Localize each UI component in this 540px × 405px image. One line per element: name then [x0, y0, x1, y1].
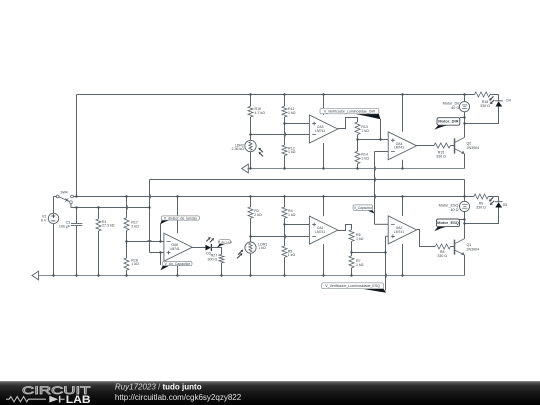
wire capacitor node [71, 207, 150, 209]
wire [351, 253, 353, 256]
resistor R8 330 [435, 244, 454, 258]
wire motor feed line [150, 179, 465, 181]
svg-text:2 kΩ: 2 kΩ [254, 213, 262, 217]
wire divider to OA6 - input [127, 241, 164, 243]
transistor Q1 2N3904 [455, 239, 480, 256]
junction mid bus [176, 195, 178, 197]
junction top bus [401, 93, 403, 95]
junction top ground rail [401, 167, 403, 169]
junction [249, 235, 251, 237]
junction [350, 251, 352, 253]
wire [250, 95, 252, 107]
svg-text:330 Ω: 330 Ω [480, 104, 490, 108]
op-amp OA1 [309, 216, 337, 244]
wire [250, 253, 252, 275]
wire D4 anode return to Q2 collector [465, 107, 499, 124]
junction bottom rail [220, 274, 222, 276]
wire OA2 V- pin [402, 244, 404, 276]
junction [283, 122, 285, 124]
svg-text:6 V: 6 V [41, 218, 47, 222]
svg-text:1 kΩ: 1 kΩ [258, 246, 266, 250]
resistor R3 2k [248, 197, 262, 237]
svg-text:V_do_Capacitor: V_do_Capacitor [164, 262, 190, 266]
net flag Motor_ESQ [434, 219, 459, 231]
junction bottom rail [125, 274, 127, 276]
wire R13/R14 junction to OA4 + input [358, 139, 389, 141]
wire [250, 117, 252, 135]
wire [464, 180, 466, 202]
wire R11 divider to OA3 + input [285, 123, 310, 125]
wire OA2 + input [386, 235, 389, 237]
svg-text:LM741: LM741 [170, 247, 180, 251]
junction [463, 222, 465, 224]
resistor R9 330 [474, 194, 499, 209]
wire V2 to ground rail [53, 224, 55, 276]
svg-text:2N3904: 2N3904 [467, 146, 480, 150]
ground rail bottom circuit [39, 275, 465, 277]
junction bottom rail [176, 274, 178, 276]
wire [464, 212, 466, 224]
capacitor C3 100uF [59, 208, 82, 276]
wire R6/R7 junction to flag stub [352, 252, 386, 254]
junction [463, 122, 465, 124]
wire [221, 263, 223, 276]
wire R9 to D5 cathode [498, 197, 500, 202]
svg-text:Motor_ESQ: Motor_ESQ [437, 220, 459, 225]
svg-text:D5: D5 [503, 203, 508, 207]
wire [284, 124, 286, 146]
wire Q2 collector to motor [464, 112, 466, 138]
junction [463, 116, 465, 118]
wire [126, 242, 128, 259]
wire [357, 164, 359, 169]
wire OA4 output to R15 [417, 145, 434, 147]
wire [351, 241, 353, 252]
svg-text:Motor_DIR: Motor_DIR [438, 119, 458, 124]
svg-text:330 Ω: 330 Ω [436, 154, 446, 158]
wire OA1 V- pin [323, 244, 325, 275]
LED D3 [205, 237, 214, 256]
wire OA6 output [192, 247, 205, 249]
svg-text:V_Capacitor: V_Capacitor [354, 206, 373, 210]
svg-text:LM741: LM741 [315, 230, 325, 234]
wire OA6 V+ pin [177, 197, 179, 234]
junction top bus [322, 93, 324, 95]
junction top ground rail [322, 167, 324, 169]
junction [379, 138, 381, 140]
svg-text:1 kΩ: 1 kΩ [288, 111, 296, 115]
battery V2 6V [41, 213, 59, 223]
wire R9 to D5 [488, 196, 498, 198]
resistor R16 330 [465, 92, 499, 108]
junction capacitor node [75, 206, 77, 208]
wire OA3 V- pin [323, 143, 325, 169]
resistor R1 27.3k [96, 208, 115, 276]
wire LDR2 divider to OA3 - input [251, 134, 310, 136]
wire OA2 + node to ESQ flag [385, 236, 387, 290]
wire Q2 emitter to rail [464, 154, 466, 169]
junction mid bus [401, 195, 403, 197]
resistor R5 1k [282, 225, 295, 276]
junction mid bus [283, 195, 285, 197]
wire [98, 231, 100, 276]
wire R16 to D4 cathode [498, 95, 500, 101]
wire [464, 95, 466, 102]
ground top circuit [242, 164, 249, 173]
wire [450, 246, 454, 248]
junction [159, 240, 161, 242]
wire [357, 140, 359, 152]
wire R4 divider to OA1 + input [285, 224, 310, 226]
wire hop crossings [127, 132, 387, 278]
wire [284, 197, 286, 208]
svg-text:V_divisor_de_tensão: V_divisor_de_tensão [164, 216, 197, 220]
svg-text:V_Verificador_Luminosidade_ESQ: V_Verificador_Luminosidade_ESQ [325, 284, 380, 288]
svg-text:2N3904: 2N3904 [467, 247, 480, 251]
resistor R12 1k [282, 124, 296, 169]
resistor R10 4.7k [248, 95, 265, 135]
svg-text:2 kΩ: 2 kΩ [131, 225, 139, 229]
svg-text:100 µF: 100 µF [59, 225, 71, 229]
CircuitLab logo [6, 384, 91, 405]
svg-text:40 Ω: 40 Ω [450, 208, 458, 212]
svg-text:4.7 kΩ: 4.7 kΩ [255, 111, 266, 115]
svg-text:Ruy172023 / tudo junto: Ruy172023 / tudo junto [115, 382, 202, 391]
wire [284, 95, 286, 107]
svg-text:330 Ω: 330 Ω [437, 254, 447, 258]
svg-text:300 Ω: 300 Ω [208, 257, 218, 261]
svg-text:1 kΩ: 1 kΩ [356, 263, 364, 267]
wire [465, 94, 475, 96]
junction capacitor node [97, 206, 99, 208]
junction [384, 251, 386, 253]
svg-text:27.3 kΩ: 27.3 kΩ [102, 224, 115, 228]
resistor R14 1k [355, 140, 369, 169]
wire LDR1 divider to OA1 - input [251, 236, 310, 238]
resistor R13 1k [355, 122, 369, 140]
junction capacitor node [148, 206, 150, 208]
svg-text:1 kΩ: 1 kΩ [361, 129, 369, 133]
svg-text:http://circuitlab.com/cgk6sy2q: http://circuitlab.com/cgk6sy2qzy822 [115, 392, 242, 401]
wire top V+ bus [77, 94, 465, 96]
LED D5 [489, 197, 507, 207]
net flag V_do_Led [217, 240, 232, 248]
svg-text:40 Ω: 40 Ω [451, 106, 459, 110]
wire flag stub DIR [380, 119, 382, 140]
ground rail top circuit [248, 168, 465, 170]
transistor Q2 2N3904 [455, 137, 480, 153]
svg-text:1 kΩ: 1 kΩ [288, 150, 296, 154]
net flag V_divisor_de_tens&#227;o [160, 216, 199, 225]
wire [250, 218, 252, 236]
wire [357, 135, 359, 140]
svg-text:LM741: LM741 [394, 146, 404, 150]
wire OA1 V+ pin [323, 197, 325, 217]
wire [126, 230, 128, 241]
net flag V_Capacitor [353, 205, 375, 214]
net flag Motor_DIR [434, 118, 460, 130]
junction bottom rail [75, 274, 77, 276]
wire OA4 V+ pin [402, 95, 404, 132]
junction bottom rail [249, 274, 251, 276]
wire OA2 - input [375, 223, 389, 225]
junction [356, 138, 358, 140]
junction bottom rail [401, 274, 403, 276]
wire [351, 268, 353, 276]
svg-text:2.36 kΩ: 2.36 kΩ [232, 147, 245, 151]
photoresistor LDR2 2.36k [232, 135, 264, 169]
junction [249, 133, 251, 135]
svg-text:1 kΩ: 1 kΩ [361, 156, 369, 160]
junction [125, 240, 127, 242]
wire [98, 208, 100, 219]
wire R16 to D4 [490, 94, 499, 96]
resistor R7 1k [349, 253, 364, 276]
motor Motor_Dir 40 [443, 95, 470, 112]
wire OA2 V+ pin [402, 197, 404, 216]
wire [126, 270, 128, 275]
resistor R11 1k [282, 95, 296, 124]
junction top bus [249, 93, 251, 95]
svg-text:330 Ω: 330 Ω [476, 205, 486, 209]
wire OA1 output to R6 [338, 225, 352, 231]
junction top bus [463, 93, 465, 95]
wire [54, 196, 57, 198]
ground bottom circuit [32, 271, 39, 280]
wire [76, 208, 78, 224]
wire OA3 V+ pin [323, 95, 325, 116]
junction bottom rail [97, 274, 99, 276]
junction mid bus [463, 195, 465, 197]
wire Motor_ESQ flag stub [460, 219, 465, 221]
wire mid V+ bus [73, 196, 474, 198]
resistor R4 1k [282, 197, 296, 225]
op-amp OA4 [388, 132, 416, 160]
net flag V_Verificador_Luminosidae_DIR [320, 108, 381, 119]
junction bottom rail [350, 274, 352, 276]
junction mid bus [75, 195, 77, 197]
junction mid bus [322, 195, 324, 197]
svg-text:1 kΩ: 1 kΩ [288, 213, 296, 217]
resistor R18 1k [124, 242, 139, 276]
svg-text:Motor_Dir: Motor_Dir [443, 102, 460, 106]
wire [450, 145, 454, 147]
junction [159, 251, 161, 253]
resistor R17 2k [124, 197, 139, 242]
junction top ground rail [356, 167, 358, 169]
net flag V_do_Capacitor [161, 261, 193, 270]
svg-text:1 kΩ: 1 kΩ [288, 253, 296, 257]
wire OA4 - input [375, 151, 389, 153]
wire OA2 output to R8 [417, 230, 436, 247]
junction [463, 218, 465, 220]
junction top ground rail [283, 167, 285, 169]
svg-text:D4: D4 [506, 98, 511, 102]
wire [250, 152, 252, 169]
resistor R27 300 [208, 254, 224, 276]
wire Q1 emitter to rail [464, 255, 466, 275]
svg-text:1 kΩ: 1 kΩ [356, 237, 364, 241]
photoresistor LDR1 1k [237, 237, 267, 276]
wire [250, 135, 252, 141]
svg-text:LM741: LM741 [394, 230, 404, 234]
junction [283, 223, 285, 225]
op-amp OA2 [388, 216, 416, 244]
junction mid bus [125, 195, 127, 197]
wire V+ left vertical [76, 95, 78, 197]
wire [284, 218, 286, 224]
svg-text:Motor_ESQ: Motor_ESQ [439, 204, 459, 208]
wire OA6 + input [150, 252, 164, 254]
junction bottom rail [322, 274, 324, 276]
wire V2 to SW4 [53, 197, 55, 214]
svg-text:LM741: LM741 [315, 129, 325, 133]
resistor R6 1k [349, 230, 364, 253]
wire OA6 V- pin [177, 261, 179, 275]
wire OA3 output to R13 [338, 118, 358, 129]
svg-text:SW4: SW4 [60, 190, 67, 194]
wire [76, 226, 78, 276]
wire flag stub V_do_Capacitor [160, 253, 162, 266]
wire V_Capacitor node OA4- to OA2- [374, 152, 376, 225]
wire [284, 156, 286, 169]
motor Motor_ESQ 40 [439, 180, 470, 224]
LED D4 [489, 96, 511, 106]
wire [250, 197, 252, 208]
wire SW4 lower throw drop [70, 204, 72, 208]
wire [284, 257, 286, 275]
junction bottom rail [52, 274, 54, 276]
wire [284, 225, 286, 246]
footer bar [0, 381, 540, 405]
wire Motor_DIR flag stub [460, 117, 465, 119]
junction bottom rail [283, 274, 285, 276]
svg-text:V_do_Led: V_do_Led [218, 240, 232, 244]
junction top bus [283, 93, 285, 95]
svg-text:LAB: LAB [66, 394, 91, 405]
net flag V_Verificador_Luminosidade_ESQ [322, 283, 387, 293]
junction top ground rail [249, 167, 251, 169]
wire Q1 collector [464, 224, 466, 239]
wire capacitor to OA6 [149, 180, 151, 253]
svg-text:V_Verificador_Luminosidae_DIR: V_Verificador_Luminosidae_DIR [324, 109, 376, 113]
wire flag stub V_divisor [160, 224, 162, 242]
op-amp OA3 [309, 115, 337, 143]
op-amp OA6 [164, 233, 192, 261]
wire OA4 V- pin [402, 160, 404, 169]
wire [250, 237, 252, 243]
wire D5 anode return to motor node [465, 208, 499, 224]
wire [284, 117, 286, 124]
junction mid bus [249, 195, 251, 197]
svg-text:1 kΩ: 1 kΩ [131, 262, 139, 266]
wire [126, 197, 128, 218]
switch SW4 [56, 190, 73, 203]
resistor R15 330 [434, 143, 455, 158]
wire D3 cathode to R27 [211, 248, 221, 255]
